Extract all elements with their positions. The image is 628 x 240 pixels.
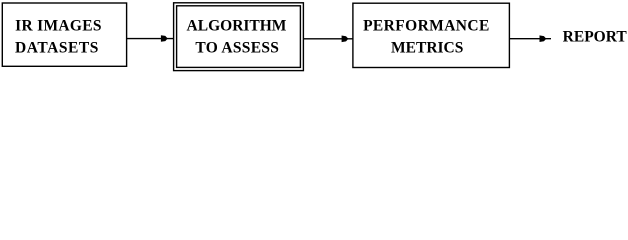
svg-text:DATASETS: DATASETS [15, 40, 99, 57]
wire: arrow from B2 to B3 [304, 36, 353, 43]
wire: arrow from B1 to B2 [127, 35, 174, 42]
box B2: ALGORITHM TO ASSESS (double border) [174, 3, 304, 71]
node label: REPORT [563, 29, 628, 46]
svg-text:PERFORMANCE: PERFORMANCE [363, 17, 490, 34]
svg-text:IR IMAGES: IR IMAGES [15, 17, 102, 34]
svg-text:ALGORITHM: ALGORITHM [187, 17, 287, 34]
svg-text:TO ASSESS: TO ASSESS [195, 40, 279, 57]
wire: arrow from B3 to REPORT [510, 35, 551, 42]
svg-text:REPORT: REPORT [563, 29, 628, 46]
box B3: PERFORMANCE METRICS [353, 3, 510, 67]
svg-text:METRICS: METRICS [391, 40, 463, 57]
box B1: IR IMAGES DATASETS [2, 3, 126, 66]
